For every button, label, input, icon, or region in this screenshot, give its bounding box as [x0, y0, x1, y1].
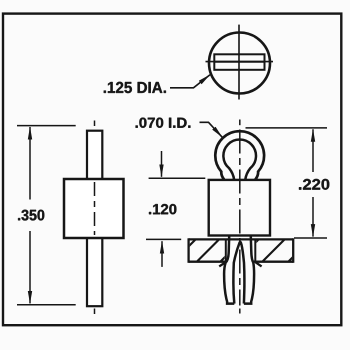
.220 dimension upper arrow: [312, 129, 314, 172]
left barb shoulder: [219, 262, 225, 266]
plate right edge: [292, 238, 294, 262]
.220 extension line top: [246, 127, 328, 129]
.120 bottom arrow: [161, 241, 163, 267]
plate left edge: [187, 238, 189, 262]
plate top line: [189, 238, 294, 240]
label .120: [149, 204, 176, 214]
label .070 I.D.: [136, 118, 191, 128]
side view pin centerline: [94, 121, 96, 127]
hatch left section: [172, 238, 244, 263]
.350 extension line top: [17, 125, 76, 127]
right barb shoulder: [255, 262, 261, 266]
front view centerline: [239, 120, 241, 126]
ring inner outline (.070 I.D. hole): [223, 140, 256, 180]
plate hole left edge: [225, 239, 227, 261]
ring outer outline: [215, 131, 264, 179]
label .125 DIA.: [104, 82, 166, 93]
hatch right section: [235, 238, 312, 263]
side view pin: [87, 131, 102, 307]
side view block: [64, 179, 124, 238]
.350 extension line bottom: [17, 304, 76, 306]
plate hole right edge: [254, 239, 256, 261]
plate bottom left segment: [189, 261, 227, 263]
side view block centerline: [94, 182, 96, 235]
.350 dimension line upper with arrow: [29, 127, 31, 200]
legs inner V slot: [233, 242, 244, 304]
right leg outer edge and foot: [244, 237, 254, 304]
front view body: [209, 180, 270, 236]
.120 top arrow: [161, 151, 163, 177]
.220 dimension lower arrow: [312, 197, 314, 237]
.120 extension line top: [149, 177, 206, 179]
leader .125: [170, 75, 210, 88]
.350 dimension line lower with arrow: [29, 231, 31, 303]
left leg outer edge and foot: [224, 237, 234, 304]
.220 extension line bottom: [294, 237, 327, 239]
.120 extension line bottom: [146, 238, 181, 240]
top view horizontal centerline: [206, 61, 274, 63]
label .220: [299, 179, 329, 190]
top view circle (.125 dia body): [209, 33, 270, 94]
plate bottom right segment: [254, 261, 294, 263]
top view vertical centerline: [238, 25, 240, 100]
label .350: [18, 210, 44, 221]
top view slot rectangle: [214, 54, 264, 70]
leader .070: [200, 122, 223, 137]
top view slot mid line: [214, 61, 264, 63]
